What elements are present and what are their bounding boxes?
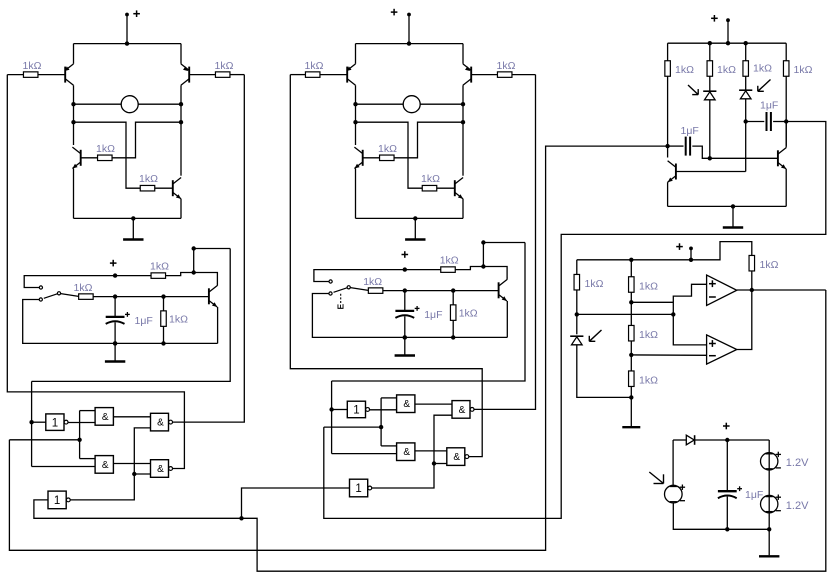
wire U8 output to U10 input: [415, 403, 452, 405]
wire U3 output to U5 input: [113, 463, 150, 465]
inverter gate U6 (left logic): [48, 491, 70, 509]
wire lamp to collector row right (middle flip-flop): [420, 103, 463, 105]
junction rail +: [726, 41, 730, 45]
wire rail to RC: [745, 43, 747, 61]
svg-text:&: &: [157, 464, 164, 475]
wire U10 lower input from cross node: [434, 415, 452, 463]
transistor QL NPN (photo block left): [668, 161, 676, 182]
wire rail to Q1 emitter (left flip-flop): [73, 44, 75, 64]
inverter gate U12 (middle logic): [350, 479, 372, 497]
light arrow into solar cell: [649, 472, 663, 484]
wire U6 output to cross node: [70, 474, 134, 500]
power terminal + of middle timer: [402, 251, 409, 258]
junction divider bottom: [629, 395, 633, 399]
NAND gate U10 (middle logic): [452, 401, 474, 419]
transistor QR NPN (photo block right): [778, 148, 786, 169]
junction inverter U7 input: [329, 407, 333, 411]
resistor RD2 1k divider (comparator): [629, 325, 659, 341]
wire Q1 collector down (left flip-flop): [73, 85, 75, 145]
junction cross-couple right (middle flip-flop): [461, 120, 465, 124]
svg-text:1: 1: [54, 495, 60, 507]
wire U7 output to split node: [369, 409, 396, 411]
junction comparator feedback node: [239, 516, 243, 520]
junction split node with west wire (middle): [379, 425, 383, 429]
wire U9 output to U11 input: [415, 450, 447, 452]
junction output node (comparator): [750, 288, 754, 292]
wire A1 output: [737, 289, 826, 291]
wire cross-couple left L (left flip-flop): [74, 122, 141, 188]
wire node to A2 plus: [673, 314, 706, 345]
switch SPDT (middle timer): [329, 280, 368, 295]
wire middle logic to photo-multivibrator right: [324, 122, 826, 519]
svg-text:1kΩ: 1kΩ: [96, 143, 115, 155]
junction cross-couple left (middle flip-flop): [353, 120, 357, 124]
wire QR emitter down: [785, 169, 787, 206]
wire staircase to A1 plus: [673, 284, 706, 314]
switch key label E (middle timer): [336, 294, 346, 310]
NAND gate U5 (left logic): [151, 460, 173, 478]
wire R1 to left feedback (middle flip-flop): [290, 74, 305, 76]
wire solar cell to bottom rail: [673, 503, 769, 529]
LED D3 (comparator photodiode): [570, 336, 583, 345]
junction divider top: [629, 258, 633, 262]
junction ground (battery block): [767, 527, 771, 531]
junction cap-right left node: [744, 119, 748, 123]
svg-text:1kΩ: 1kΩ: [585, 278, 604, 290]
power terminal + of left timer: [110, 260, 117, 267]
capacitor C1 1uF timing (left timer): [106, 312, 153, 327]
wire R7 bottom (left timer): [163, 326, 165, 343]
wire QR collector up: [785, 122, 787, 148]
wire tap2 to A2 minus: [631, 354, 706, 356]
wire RD3 to ground node: [630, 387, 632, 398]
lamp indicator (middle flip-flop): [403, 96, 420, 113]
svg-text:1kΩ: 1kΩ: [440, 254, 459, 266]
svg-text:&: &: [459, 405, 466, 416]
transistor Q2 PNP right (middle flip-flop): [463, 64, 471, 85]
wire R6 to base row (left timer): [93, 296, 209, 298]
svg-text:1kΩ: 1kΩ: [459, 308, 478, 320]
wire rail to RL (comparator): [576, 260, 578, 275]
svg-text:1kΩ: 1kΩ: [378, 143, 397, 155]
svg-text:1μF: 1μF: [424, 309, 442, 321]
svg-text:1kΩ: 1kΩ: [794, 64, 813, 76]
wire Q1 collector down (middle flip-flop): [355, 85, 357, 145]
wire rail to RB: [709, 43, 711, 61]
svg-text:&: &: [453, 452, 460, 463]
resistor R7 1k discharge (middle timer): [450, 305, 477, 321]
junction cap bottom (left timer): [113, 341, 117, 345]
svg-text:1kΩ: 1kΩ: [760, 259, 779, 271]
svg-text:&: &: [403, 399, 410, 410]
capacitor C1 1uF timing (middle timer): [395, 306, 442, 321]
wire inverter U7 input vertical: [331, 381, 333, 454]
wire cap to bottom rail (left timer): [114, 322, 116, 343]
wire cap to bottom rail (battery block): [726, 497, 728, 530]
junction right base node: [708, 156, 712, 160]
NAND gate U8 (middle logic): [397, 395, 415, 413]
svg-text:1kΩ: 1kΩ: [675, 64, 694, 76]
wire cross-couple right L (middle flip-flop): [394, 122, 463, 158]
resistor RC 1k (photo block): [743, 61, 772, 77]
wire output to gates riser (middle timer): [483, 242, 525, 244]
svg-text:1kΩ: 1kΩ: [150, 260, 169, 272]
resistor R4 1k base of Q4 (left flip-flop): [139, 173, 158, 191]
svg-text:1kΩ: 1kΩ: [639, 375, 658, 387]
transistor Q3 NPN lower-left (left flip-flop): [72, 147, 80, 168]
battery source B1 1.2V: [761, 452, 782, 470]
wire RB to LED1: [709, 76, 711, 91]
resistor R2 1k base of Q2 (middle flip-flop): [497, 60, 516, 77]
wire cross node to U5 lower input: [134, 473, 150, 475]
wire Q2 collector down (middle flip-flop): [462, 85, 464, 175]
node timer-out riser to inverter input (left logic): [32, 249, 231, 382]
wire LED1 to base node: [709, 100, 711, 159]
wire U12 output to cross node: [372, 464, 434, 489]
resistor R7 1k discharge (left timer): [161, 311, 188, 327]
resistor RB 1k (photo block): [707, 61, 736, 77]
transistor Q4 NPN lower-right (middle flip-flop): [455, 178, 463, 199]
junction collector node dot2 (middle timer): [481, 264, 485, 268]
svg-text:&: &: [102, 460, 109, 471]
wire top rail (photo block): [668, 42, 787, 44]
wire top rail (battery block): [673, 439, 686, 441]
power terminal + of middle flip-flop: [391, 9, 411, 17]
wire split to NAND U9 upper input: [381, 445, 397, 447]
junction top rail (middle flip-flop): [407, 41, 411, 45]
wire cap to bottom rail (middle timer): [404, 316, 406, 337]
power terminal + comparator: [676, 243, 693, 250]
LED D1 (photodiode left): [703, 91, 716, 100]
junction collector node dot2 (left timer): [192, 270, 196, 274]
wire R4 to Q4 base (middle flip-flop): [437, 187, 455, 189]
junction R7 top (left timer): [161, 294, 165, 298]
wire switch bottom contact to bottom rail (middle timer): [312, 294, 507, 338]
transistor Q3 NPN lower-left (middle flip-flop): [354, 147, 362, 168]
svg-text:1kΩ: 1kΩ: [169, 314, 188, 326]
wire Q3 emitter down (left flip-flop): [73, 169, 75, 219]
capacitor CL 1uF (photo block): [681, 125, 699, 156]
wire U4 output feedback to R2: [172, 75, 244, 423]
wire Q2 base to R2 (left flip-flop): [189, 74, 215, 76]
wire U4 lower input from cross node: [134, 428, 150, 474]
svg-text:1.2V: 1.2V: [786, 500, 809, 512]
transistor Q5 NPN (left timer): [209, 286, 217, 307]
junction output node dot1 (left timer): [192, 246, 196, 250]
svg-text:1kΩ: 1kΩ: [497, 60, 516, 72]
wire U1 output to split node: [68, 422, 95, 424]
capacitor CR 1uF (photo block): [760, 100, 778, 132]
junction output node dot1 (middle timer): [481, 240, 485, 244]
wire emitter bottom rail (middle flip-flop): [356, 217, 464, 219]
wire QL emitter down: [667, 182, 669, 206]
light arrow into D2: [758, 80, 771, 92]
svg-text:1μF: 1μF: [745, 489, 763, 501]
capacitor CB 1uF (battery block): [718, 486, 763, 501]
resistor R1 1k base of Q1 (left flip-flop): [23, 60, 42, 77]
wire split vertical (U7 output node): [380, 398, 382, 446]
junction bottom rail ground (left flip-flop): [131, 216, 135, 220]
svg-text:1: 1: [355, 483, 361, 495]
svg-text:1kΩ: 1kΩ: [74, 282, 93, 294]
svg-text:1.2V: 1.2V: [786, 457, 809, 469]
node timer-out riser to inverter input (middle logic): [332, 243, 525, 382]
resistor R2 1k base of Q2 (left flip-flop): [215, 60, 234, 77]
op-amp A1 comparator: [707, 275, 737, 305]
resistor RD1 1k divider (comparator): [629, 277, 659, 293]
wire cap-left right lead: [692, 146, 710, 158]
ground symbol (middle flip-flop): [405, 218, 425, 239]
wire Q5 emitter down (middle timer): [506, 301, 508, 337]
svg-text:1kΩ: 1kΩ: [363, 276, 382, 288]
wire Q4 emitter down (middle flip-flop): [462, 199, 464, 219]
wire rail down to solar cell: [672, 440, 674, 485]
wire + terminal to top rail (left flip-flop): [126, 15, 128, 44]
wire R2 to right feedback (middle flip-flop): [512, 74, 536, 76]
wire west from split node to riser (middle): [324, 426, 381, 428]
resistor RP 1k pull-up (comparator): [749, 255, 779, 271]
diode D4 (battery block): [686, 435, 694, 445]
NAND gate U11 (middle logic): [447, 448, 469, 466]
wire Q3 base to R3 (left flip-flop): [81, 157, 98, 159]
junction Q2 collector lamp row (middle flip-flop): [461, 102, 465, 106]
inverter gate U1 (left logic): [46, 414, 68, 431]
wire output to gates riser (left timer): [194, 248, 231, 250]
wire split to NAND U8 upper input: [381, 397, 397, 399]
resistor R4 1k base of Q4 (middle flip-flop): [421, 173, 440, 191]
wire RD1 to tap1: [630, 292, 632, 325]
ground symbol (comparator): [622, 397, 640, 427]
junction R7 top (middle timer): [451, 288, 455, 292]
svg-text:&: &: [102, 412, 109, 423]
svg-text:1kΩ: 1kΩ: [639, 281, 658, 293]
svg-text:1: 1: [353, 405, 359, 417]
wire to NAND U9 lower input: [332, 453, 397, 455]
wire rail to Q2 emitter (left flip-flop): [180, 44, 182, 64]
transistor Q4 NPN lower-right (left flip-flop): [173, 178, 181, 199]
junction R7 bottom (middle timer): [451, 335, 455, 339]
wire U6 input from comparator line: [34, 500, 242, 518]
wire QR base row: [710, 157, 778, 159]
wire bottom rail (photo block): [668, 205, 787, 207]
wire base row to cap (middle timer): [404, 291, 406, 310]
wire Q3 emitter down (middle flip-flop): [355, 169, 357, 219]
wire top supply rail (middle flip-flop): [356, 43, 464, 45]
junction Q2 collector lamp row (left flip-flop): [179, 102, 183, 106]
wire RC to LED2: [745, 76, 747, 90]
switch SPDT (left timer): [39, 286, 78, 301]
wire R2 to right feedback (left flip-flop): [230, 74, 244, 76]
wire U10 output feedback to R2 (middle): [474, 75, 536, 410]
wire base row to cap (left timer): [114, 297, 116, 316]
wire dot2 up to dot1 (middle timer): [482, 243, 484, 267]
junction inverter U1 input: [29, 420, 33, 424]
junction rail cap (battery block): [725, 438, 729, 442]
wire Q5 collector up (left timer): [216, 283, 218, 285]
svg-text:1kΩ: 1kΩ: [421, 173, 440, 185]
wire RA to cap node: [667, 76, 669, 157]
wire collector row left to lamp (left flip-flop): [74, 103, 122, 105]
resistor R1 1k base of Q1 (middle flip-flop): [305, 60, 324, 77]
wire R6 to base row (middle timer): [383, 290, 499, 292]
wire B2 to bottom rail: [768, 513, 770, 530]
junction Q1 collector lamp row (middle flip-flop): [353, 102, 357, 106]
junction A1 input node: [671, 312, 675, 316]
junction cross-couple left (left flip-flop): [71, 120, 75, 124]
junction cap bottom (middle timer): [403, 335, 407, 339]
wire + to rail (photo block): [727, 20, 729, 43]
wire top rail from switch to R5 (middle timer): [314, 270, 441, 282]
wire rail to RA: [667, 43, 669, 61]
ground symbol (middle timer): [395, 337, 415, 355]
resistor R5 1k collector supply (left timer): [150, 260, 169, 278]
resistor RD 1k (photo block): [783, 61, 812, 77]
junction cross node U5/U6: [132, 472, 136, 476]
transistor Q2 PNP right (left flip-flop): [181, 64, 189, 85]
light arrow into D1: [688, 85, 698, 95]
wire R4 to Q4 base (left flip-flop): [155, 187, 173, 189]
wire west from split node: [9, 439, 79, 441]
wire rail to Q2 emitter (middle flip-flop): [462, 44, 464, 64]
ground symbol (photo block): [723, 206, 743, 227]
wire dot2 up to dot1 (left timer): [193, 249, 195, 273]
LED D2 (photodiode right): [739, 90, 752, 99]
wire rail to battery B1: [768, 440, 770, 453]
wire top supply rail (left flip-flop): [74, 43, 182, 45]
svg-text:1: 1: [52, 417, 58, 429]
wire cross-couple right L (left flip-flop): [112, 122, 181, 158]
wire Q5 emitter down (left timer): [217, 307, 219, 343]
wire stub to U1 input: [32, 421, 46, 423]
junction ground stem (left timer): [113, 341, 117, 345]
resistor R6 1k base (left timer): [74, 282, 94, 300]
wire cap-right right lead: [773, 121, 786, 123]
wire R1 to Q1 base (left flip-flop): [38, 74, 65, 76]
junction split node with west wire: [77, 438, 81, 442]
svg-text:E: E: [336, 303, 346, 309]
junction cap-left node: [665, 144, 669, 148]
junction ground stem (middle timer): [403, 335, 407, 339]
transistor Q5 NPN (middle timer): [499, 280, 507, 301]
wire switch bottom contact to bottom rail (left timer): [23, 300, 218, 344]
wire inverter U1 input vertical: [31, 381, 33, 466]
wire RD2 to tap2: [630, 341, 632, 371]
wire split to NAND U3 upper input: [80, 458, 96, 460]
wire RD to collector node: [785, 76, 787, 146]
resistor RL 1k (comparator): [574, 274, 604, 290]
wire R5 to collector node (left timer): [166, 273, 218, 284]
wire rail to RD: [785, 43, 787, 61]
resistor R3 1k base of Q3 (left flip-flop): [96, 143, 115, 161]
svg-text:1kΩ: 1kΩ: [639, 329, 658, 341]
wire Q4 emitter down (left flip-flop): [180, 199, 182, 219]
wire U11 output feedback to R1 (middle): [290, 75, 482, 457]
resistor R3 1k base of Q3 (middle flip-flop): [378, 143, 397, 161]
wire comparator output distribution: [242, 290, 826, 571]
resistor R6 1k base (middle timer): [363, 276, 383, 294]
junction ground (photo block): [731, 204, 735, 208]
wire supply rail (comparator): [577, 242, 752, 260]
svg-text:1kΩ: 1kΩ: [305, 60, 324, 72]
junction cap top (middle timer): [403, 288, 407, 292]
junction cross-couple right (left flip-flop): [179, 120, 183, 124]
NAND gate U2 (left logic): [95, 408, 113, 426]
wire left logic to photo-multivibrator left: [9, 146, 667, 550]
junction cap bottom (battery block): [725, 527, 729, 531]
inverter gate U7 (middle logic): [347, 401, 369, 418]
junction LED node (comparator): [575, 312, 579, 316]
wire R1 to left feedback (left flip-flop): [7, 74, 23, 76]
wire D3 to bottom node: [577, 345, 632, 398]
wire split vertical (U1 output node): [79, 411, 81, 459]
lamp indicator (left flip-flop): [121, 96, 138, 113]
wire lamp to collector row right (left flip-flop): [138, 103, 181, 105]
wire cap-left left lead: [668, 145, 684, 147]
wire rail to cap (battery block): [726, 440, 728, 490]
wire cross node to U11 lower input: [434, 463, 447, 465]
wire top rail from switch to R5 (left timer): [24, 276, 151, 288]
wire emitter bottom rail (left flip-flop): [74, 217, 182, 219]
wire to NAND U3 lower input: [32, 466, 96, 468]
wire A2 output up: [737, 290, 752, 350]
battery source B2 1.2V: [761, 495, 782, 513]
power terminal + photo block: [711, 15, 730, 22]
ground symbol (battery block): [759, 529, 779, 556]
wire R7 top (left timer): [163, 297, 165, 311]
solar cell source: [665, 485, 686, 503]
op-amp A2 comparator: [707, 335, 737, 364]
wire Q2 base to R2 (middle flip-flop): [471, 74, 497, 76]
wire R7 bottom (middle timer): [452, 320, 454, 337]
light arrow into D3: [589, 330, 601, 341]
NAND gate U9 (middle logic): [397, 443, 415, 461]
svg-text:1kΩ: 1kΩ: [215, 60, 234, 72]
power label + battery block: [723, 423, 730, 430]
junction R7 bottom (left timer): [161, 341, 165, 345]
junction Q1 collector lamp row (left flip-flop): [71, 102, 75, 106]
wire U2 output to U4 input: [113, 416, 150, 418]
resistor RA 1k (photo block): [665, 61, 694, 77]
svg-text:1kΩ: 1kΩ: [753, 63, 772, 75]
svg-text:1μF: 1μF: [760, 100, 778, 112]
junction divider tap1: [629, 300, 633, 304]
NAND gate U4 (left logic): [151, 413, 173, 431]
svg-text:&: &: [157, 418, 164, 429]
wire B1 to B2: [768, 470, 770, 495]
svg-text:1μF: 1μF: [135, 315, 153, 327]
wire LED2 to left base: [745, 99, 747, 172]
junction bottom rail ground (middle flip-flop): [413, 216, 417, 220]
wire Q2 collector down (left flip-flop): [180, 85, 182, 175]
resistor RD3 1k divider (comparator): [629, 371, 659, 387]
junction cap top (left timer): [113, 294, 117, 298]
resistor R5 1k collector supply (middle timer): [440, 254, 459, 272]
junction cap-right right node: [784, 119, 788, 123]
wire + terminal to top rail (middle flip-flop): [408, 15, 410, 44]
wire QL base row: [676, 171, 746, 173]
wire + to rail (comparator): [690, 248, 692, 259]
wire split to NAND U2 upper input: [80, 410, 96, 412]
wire U5 output feedback to R1: [7, 75, 184, 469]
junction rail C: [744, 41, 748, 45]
wire stub to U7 input: [332, 409, 348, 411]
wire R1 to Q1 base (middle flip-flop): [320, 74, 347, 76]
wire Q3 base to R3 (middle flip-flop): [363, 157, 380, 159]
terminal dot + rail (left timer): [113, 273, 117, 277]
wire RP to output node: [751, 271, 753, 290]
wire R5 to collector node (middle timer): [455, 267, 507, 278]
wire rail to Q1 emitter (middle flip-flop): [355, 44, 357, 64]
